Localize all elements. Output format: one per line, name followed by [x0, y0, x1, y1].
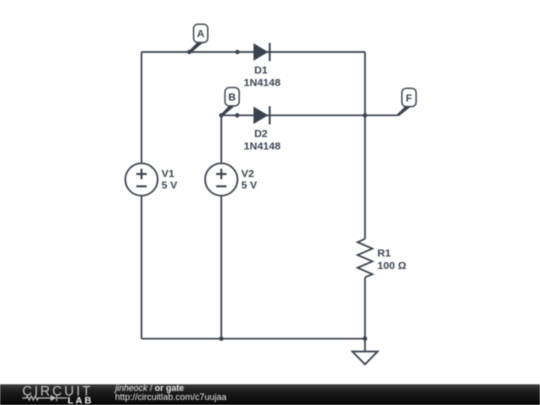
junction dot V2 bottom: [219, 337, 223, 341]
wire B/D2 row to F: [221, 114, 397, 116]
resistor R1 label: [377, 248, 406, 273]
node F: [397, 88, 417, 116]
svg-text:5 V: 5 V: [241, 180, 257, 192]
svg-text:V1: V1: [162, 168, 175, 180]
svg-text:B: B: [228, 92, 236, 104]
junction dot ground: [363, 337, 367, 341]
wire bottom rail: [142, 338, 366, 340]
resistor R1: [358, 239, 373, 278]
junction dot D1 anode: [235, 50, 239, 54]
junction dot top A: [187, 50, 191, 54]
svg-text:D2: D2: [254, 128, 268, 140]
svg-text:1N4148: 1N4148: [244, 77, 281, 89]
diode D1 label: [244, 65, 281, 89]
wire left rail (V1 branch upper): [141, 52, 143, 163]
footer bar: [0, 384, 540, 405]
voltage source V2 label: [241, 168, 257, 192]
junction dot B corner: [219, 113, 223, 117]
node B: [221, 88, 240, 117]
diode D2 label: [244, 128, 281, 152]
svg-text:D1: D1: [254, 65, 268, 77]
junction dot D2 anode: [235, 113, 239, 117]
wire V2 branch upper: [220, 115, 222, 163]
svg-text:R1: R1: [377, 248, 391, 260]
svg-text:http://circuitlab.com/c7uujaa: http://circuitlab.com/c7uujaa: [115, 392, 227, 402]
svg-text:F: F: [406, 92, 413, 104]
node A: [189, 24, 208, 53]
svg-text:1N4148: 1N4148: [244, 141, 281, 153]
svg-text:LAB: LAB: [68, 395, 94, 405]
svg-text:100 Ω: 100 Ω: [377, 260, 406, 272]
diode D2: [254, 106, 270, 124]
wire right rail lower: [364, 277, 366, 351]
junction dot right rail cross: [363, 113, 367, 117]
svg-text:5 V: 5 V: [162, 180, 178, 192]
wire left rail (V1 branch lower): [141, 196, 143, 339]
svg-text:A: A: [197, 28, 205, 40]
wire top rail A row: [142, 51, 366, 53]
diode D1: [254, 43, 270, 61]
ground: [352, 352, 377, 365]
voltage source V1 label: [162, 168, 178, 192]
CircuitLab logo schematic: [22, 395, 67, 401]
wire V2 branch lower: [220, 196, 222, 339]
wire right rail upper: [364, 52, 366, 239]
voltage source V1: [125, 163, 157, 195]
svg-text:V2: V2: [241, 168, 254, 180]
voltage source V2: [205, 163, 237, 195]
